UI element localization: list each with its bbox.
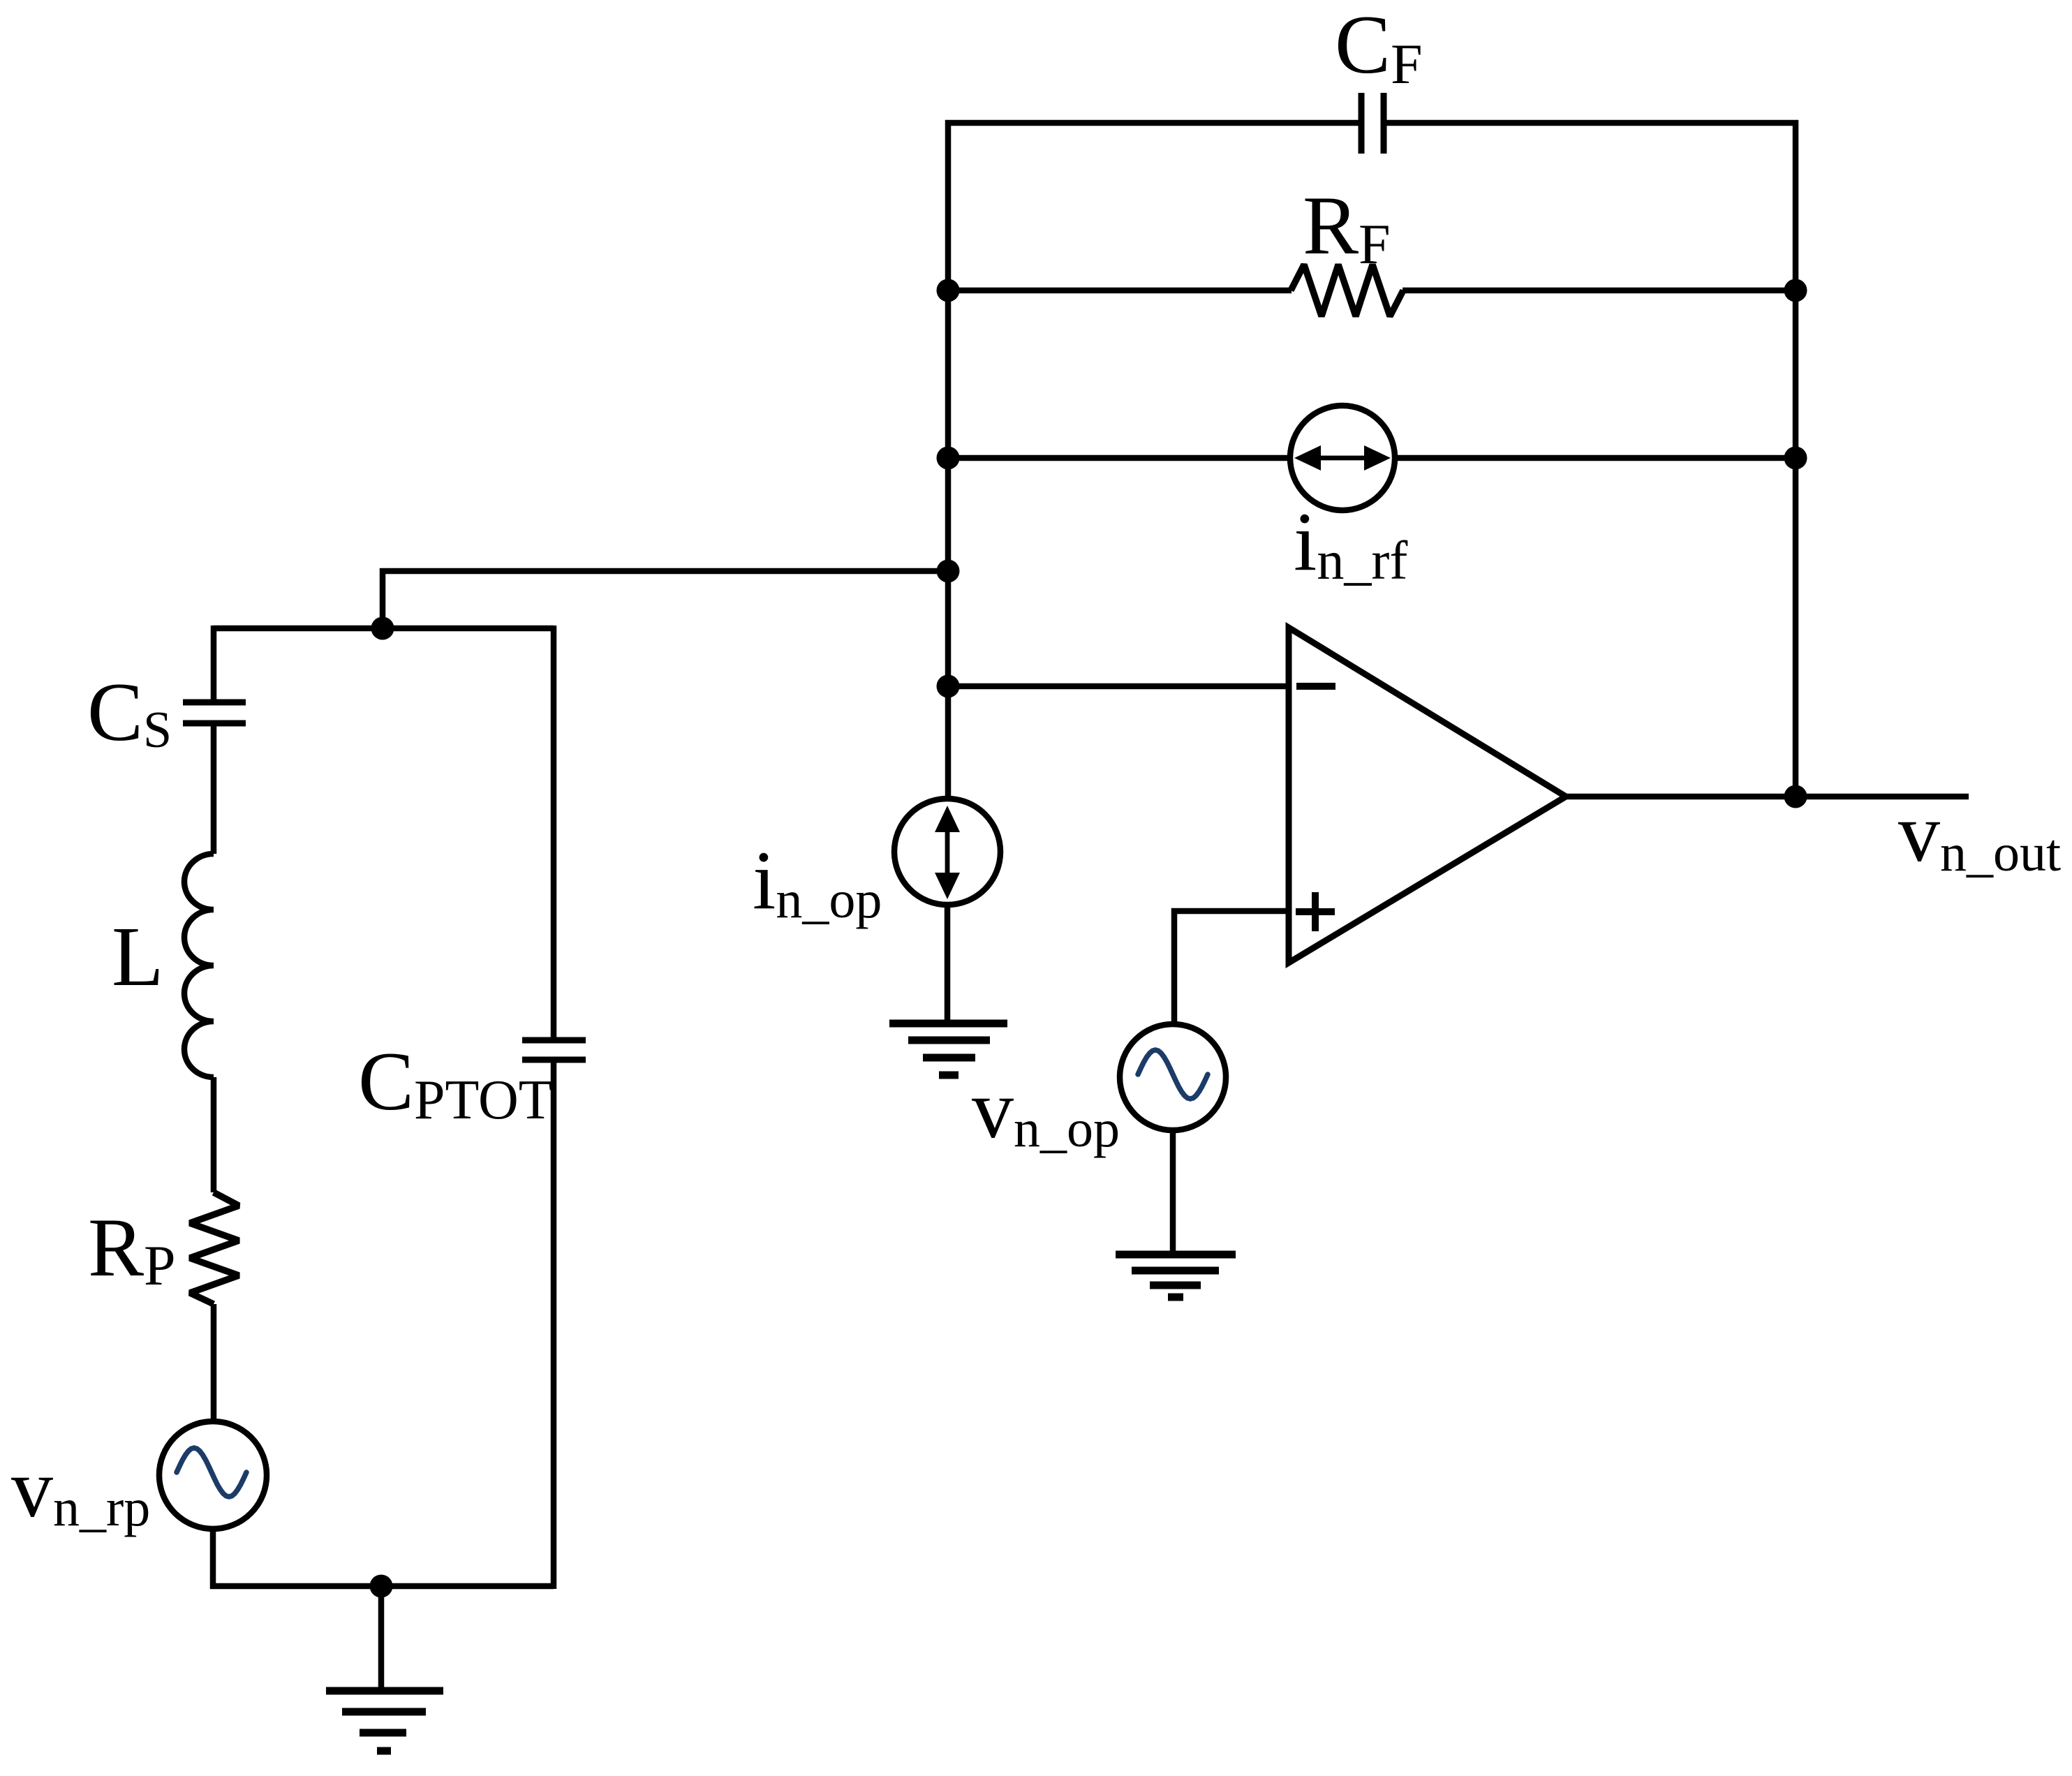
wire noninverting input (1174, 911, 1289, 1025)
wire in_rf row right (1397, 455, 1796, 461)
wire vn_rp to bottom (210, 1527, 216, 1589)
junction output (1784, 785, 1807, 808)
junction RF-left (937, 279, 960, 302)
junction input-rail (937, 560, 960, 583)
wire left loop bottom (210, 1583, 554, 1590)
current source in_rf (1290, 406, 1395, 510)
junction in_rf-right (1784, 447, 1807, 470)
ground (in_op) (889, 1023, 1007, 1075)
wire L to RP (211, 1077, 217, 1192)
wire input node (from CPTOT loop to inverting rail) (383, 571, 948, 628)
junction in_rf-left (937, 447, 960, 470)
wire CPTOT branch top (551, 626, 557, 1037)
svg-text:L: L (112, 910, 164, 1004)
pin minus symbol (1296, 683, 1335, 690)
current source in_op (894, 799, 1000, 905)
wire RP to vn_rp (211, 1304, 217, 1421)
wire in_op to ground (945, 905, 951, 1023)
capacitor CF (1361, 93, 1384, 154)
wire top feedback left segment (CF row) (948, 123, 1361, 688)
wire CS to L (211, 726, 217, 854)
wire inverting input (948, 683, 1289, 690)
resistor RF (1291, 265, 1403, 316)
capacitor CS (183, 702, 246, 723)
ground (vn_op) (1116, 1255, 1236, 1297)
wire rail to in_op (945, 686, 952, 799)
wire in_rf row left (948, 455, 1289, 461)
wire RF row left (948, 288, 1292, 294)
wire vn_op to ground (1170, 1130, 1176, 1255)
junction input-loop (371, 617, 394, 640)
resistor RP (190, 1192, 239, 1304)
inductor L (184, 854, 214, 1077)
voltage source vn_rp (159, 1421, 267, 1529)
voltage source vn_op (1120, 1024, 1226, 1130)
capacitor CPTOT (522, 1040, 586, 1060)
wire top feedback right segment (CF row) (1384, 123, 1796, 797)
ground (bottom) (326, 1691, 443, 1751)
wire bottom to ground (378, 1586, 385, 1691)
wire RF row right (1403, 288, 1796, 294)
wire left branch top (211, 626, 217, 700)
junction RF-right (1784, 279, 1807, 302)
op-amp U1 (1289, 628, 1566, 963)
wire output (1566, 794, 1969, 800)
wire CPTOT branch bottom (551, 1063, 557, 1589)
pin plus symbol (1296, 892, 1335, 931)
junction bottom-ground (370, 1575, 393, 1598)
wire left loop top (214, 626, 554, 632)
junction inverting-rail (937, 675, 960, 698)
